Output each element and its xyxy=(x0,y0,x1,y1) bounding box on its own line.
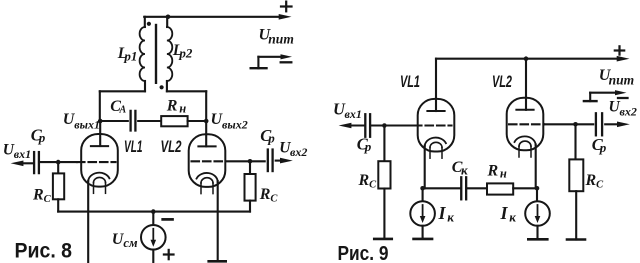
svg-text:пит: пит xyxy=(268,32,294,47)
svg-text:VL2: VL2 xyxy=(161,138,182,156)
svg-text:н: н xyxy=(500,167,507,181)
svg-text:VL1: VL1 xyxy=(400,73,420,91)
svg-text:пит: пит xyxy=(609,72,635,87)
svg-text:вх2: вх2 xyxy=(290,145,307,159)
svg-text:VL2: VL2 xyxy=(492,73,512,91)
svg-text:к: к xyxy=(461,162,468,177)
svg-text:R: R xyxy=(585,172,597,189)
svg-text:см: см xyxy=(123,236,138,250)
svg-text:A: A xyxy=(119,105,127,116)
svg-text:вх1: вх1 xyxy=(14,147,31,161)
svg-text:VL1: VL1 xyxy=(124,138,143,156)
svg-text:н: н xyxy=(179,101,186,115)
svg-text:R: R xyxy=(487,163,499,180)
svg-text:R: R xyxy=(259,186,271,203)
svg-text:к: к xyxy=(509,210,516,225)
svg-text:C: C xyxy=(270,193,278,204)
svg-text:R: R xyxy=(358,172,370,189)
svg-text:C: C xyxy=(44,194,52,205)
svg-text:I: I xyxy=(500,203,509,223)
svg-text:p1: p1 xyxy=(123,48,137,63)
svg-text:вых1: вых1 xyxy=(74,117,100,131)
svg-text:I: I xyxy=(438,203,447,223)
svg-text:C: C xyxy=(596,180,604,191)
svg-text:вх1: вх1 xyxy=(345,107,362,121)
svg-text:вх2: вх2 xyxy=(620,104,637,118)
svg-text:p: p xyxy=(267,130,275,145)
svg-text:вых2: вых2 xyxy=(222,117,248,131)
svg-text:Рис. 9: Рис. 9 xyxy=(338,242,389,263)
svg-text:C: C xyxy=(369,180,377,191)
svg-text:R: R xyxy=(166,97,178,114)
svg-text:p: p xyxy=(364,139,372,154)
svg-text:p: p xyxy=(599,140,607,155)
svg-text:Рис. 8: Рис. 8 xyxy=(15,239,73,262)
svg-text:p2: p2 xyxy=(178,46,193,61)
svg-text:к: к xyxy=(447,210,454,225)
svg-text:R: R xyxy=(32,187,44,204)
svg-text:p: p xyxy=(38,130,46,145)
